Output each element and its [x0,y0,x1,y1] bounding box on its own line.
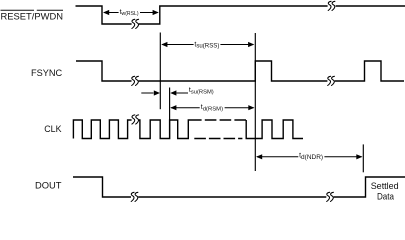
t_su(RSM) annotation [141,87,213,95]
vertical reference line at RESET rising edge [159,33,161,110]
vertical reference line at CLK rising edge [169,88,171,140]
break on RESET/PWDN high line [328,1,335,10]
wire RESET/PWDN waveform [76,6,405,24]
t_su(RSS) annotation [161,41,254,49]
vertical reference line at FSYNC rising edge [254,33,256,171]
break on DOUT low line (left) [131,192,138,201]
svg-text:FSYNC: FSYNC [31,68,62,79]
svg-text:Settled: Settled [371,181,399,192]
break on FSYNC low line (right) [328,76,335,85]
svg-text:tsu(RSS): tsu(RSS) [194,41,219,49]
wire CLK waveform solid pulses (right) [246,120,303,139]
t_d(NDR) annotation [256,153,363,161]
break on RESET/PWDN low line [132,19,139,28]
break on FSYNC low line (left) [132,76,139,85]
svg-text:tsu(RSM): tsu(RSM) [189,87,214,95]
wire FSYNC waveform [76,61,404,81]
t_d(RSM) annotation [170,104,254,112]
break on CLK high line [132,115,139,124]
svg-text:td(NDR): td(NDR) [299,153,323,161]
svg-text:tw(RSL): tw(RSL) [120,9,139,17]
t_w(RSL) annotation [103,9,159,17]
svg-text:Data: Data [377,192,395,203]
measurement tick at DOUT data-ready edge [362,144,364,172]
wire CLK waveform solid pulses (middle) [139,120,190,139]
break on DOUT low line (right) [327,192,334,201]
svg-text:CLK: CLK [44,124,62,135]
svg-text:td(RSM): td(RSM) [201,104,223,112]
signal label RESET/PWDN [1,10,64,22]
wire CLK waveform solid pulses (left) [73,120,131,139]
svg-text:DOUT: DOUT [35,180,62,191]
CLK don't-care dashed section [190,120,246,139]
label Settled Data [371,181,399,203]
wire DOUT waveform [73,177,405,197]
svg-text:RESET/PWDN: RESET/PWDN [1,12,64,23]
